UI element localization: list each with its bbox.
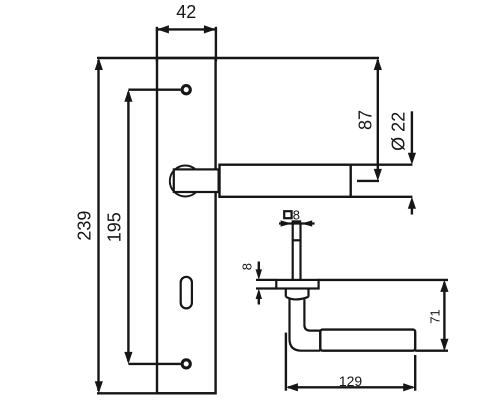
extension line 129 left (285, 333, 287, 391)
grip extension lines (351, 163, 413, 165)
dimension 195 line (124, 90, 180, 364)
svg-text:129: 129 (339, 373, 363, 389)
dimension 239 line (95, 58, 103, 393)
dimension diameter 22 (408, 111, 416, 214)
svg-text:8: 8 (293, 207, 300, 222)
dimension square 8 (279, 220, 315, 226)
spindle (293, 223, 301, 281)
lever neck (174, 169, 219, 192)
handle neck and bend side view (290, 299, 321, 351)
dimension 42 (157, 25, 216, 61)
grip side view (320, 330, 415, 351)
svg-text:71: 71 (428, 309, 443, 323)
extension line 71 top (319, 279, 448, 281)
lever neck circle (170, 166, 201, 197)
square-8 symbol (284, 211, 291, 218)
svg-text:195: 195 (105, 212, 125, 242)
svg-text:87: 87 (355, 110, 375, 130)
rose extension lines (256, 279, 276, 281)
svg-text:8: 8 (239, 263, 254, 270)
dimension 71 (440, 280, 448, 351)
dimension 87 (357, 58, 382, 181)
dimension 8 rose thickness (256, 262, 262, 305)
svg-text:42: 42 (176, 2, 196, 22)
lever grip front view (220, 165, 351, 197)
bottom screw hole (182, 360, 190, 368)
top screw hole (182, 86, 190, 94)
extension line 71 bottom (415, 350, 448, 352)
neck sleeve side view (286, 289, 309, 300)
svg-text:Ø 22: Ø 22 (389, 112, 409, 151)
extension line 129 right (414, 355, 416, 391)
dimension 129 (286, 383, 415, 391)
backplate (157, 58, 216, 393)
grip joint line (319, 330, 321, 351)
keyhole (181, 277, 192, 309)
svg-text:239: 239 (74, 211, 94, 241)
top extension line (97, 57, 379, 59)
rose side view (276, 280, 318, 289)
bottom extension line (97, 392, 216, 394)
